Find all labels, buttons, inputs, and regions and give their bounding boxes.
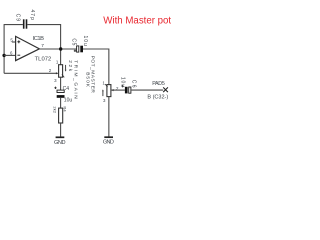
svg-text:2k2: 2k2 bbox=[53, 106, 58, 113]
capacitor C9 bbox=[14, 10, 35, 29]
wire: feedback drop / trim chain top bbox=[60, 25, 62, 65]
svg-text:TRIM_GAIN: TRIM_GAIN bbox=[72, 60, 78, 99]
svg-text:C9: C9 bbox=[14, 14, 20, 22]
node: output junction bbox=[59, 47, 62, 50]
svg-text:1: 1 bbox=[56, 60, 59, 65]
ground GND left bbox=[54, 137, 66, 146]
resistor R4 2k2 bbox=[53, 106, 68, 123]
wire: pin 5 stub bbox=[12, 41, 16, 43]
pad PAD5 bbox=[152, 81, 168, 92]
svg-text:3: 3 bbox=[54, 78, 57, 83]
svg-text:B50K: B50K bbox=[85, 72, 91, 88]
wire: top feedback left segment bbox=[4, 24, 23, 26]
svg-text:GND: GND bbox=[54, 140, 66, 146]
svg-text:10u: 10u bbox=[82, 36, 88, 47]
trimmer TRIM_GAIN 22k bbox=[49, 60, 79, 100]
wire: right vertical to master pot bbox=[108, 49, 110, 85]
wire: R4 to ground bbox=[60, 123, 62, 137]
svg-text:22k: 22k bbox=[67, 60, 73, 72]
op-amp IC1B bbox=[10, 36, 51, 62]
svg-text:2: 2 bbox=[49, 68, 52, 73]
svg-text:C5: C5 bbox=[70, 38, 76, 45]
svg-text:IC1B: IC1B bbox=[33, 36, 45, 42]
wire: output after C5 bbox=[83, 48, 109, 50]
wire: master pot bottom to ground bbox=[108, 97, 110, 138]
svg-text:C6: C6 bbox=[131, 80, 137, 88]
wire: left vertical feedback line bbox=[3, 24, 5, 73]
potentiometer POT_MASTER B50K bbox=[85, 56, 119, 103]
capacitor C5 bbox=[70, 36, 88, 53]
svg-text:TL072: TL072 bbox=[35, 56, 52, 62]
capacitor C6 bbox=[120, 77, 137, 94]
svg-text:With Master pot: With Master pot bbox=[103, 16, 171, 27]
wire: C6 to pad bbox=[131, 89, 163, 91]
wire: C4 to R4 bbox=[60, 98, 62, 108]
capacitor C4 bbox=[54, 86, 72, 104]
svg-text:7: 7 bbox=[41, 43, 44, 49]
svg-text:1: 1 bbox=[103, 80, 106, 85]
svg-text:6: 6 bbox=[10, 51, 13, 56]
svg-text:47p: 47p bbox=[29, 10, 35, 21]
wire: op-amp output bbox=[39, 48, 76, 50]
ground GND right bbox=[103, 137, 114, 145]
svg-text:R4: R4 bbox=[62, 106, 67, 112]
svg-text:PAD5: PAD5 bbox=[152, 81, 165, 87]
svg-text:B (C32-): B (C32-) bbox=[147, 95, 168, 101]
wire: trim pot bottom to C4 bbox=[60, 77, 62, 90]
wire: top feedback right segment bbox=[27, 24, 61, 26]
svg-text:3: 3 bbox=[103, 98, 106, 103]
node: junction at inverting input bbox=[2, 54, 5, 57]
svg-text:GND: GND bbox=[103, 139, 114, 145]
svg-text:10u: 10u bbox=[64, 98, 73, 104]
wire: wiper to C6 bbox=[111, 89, 125, 91]
svg-text:10u: 10u bbox=[120, 77, 126, 87]
svg-text:C4: C4 bbox=[63, 86, 70, 92]
wire: pin 6 stub bbox=[4, 54, 16, 56]
wire: wiper wire to trim pot bbox=[4, 72, 57, 74]
